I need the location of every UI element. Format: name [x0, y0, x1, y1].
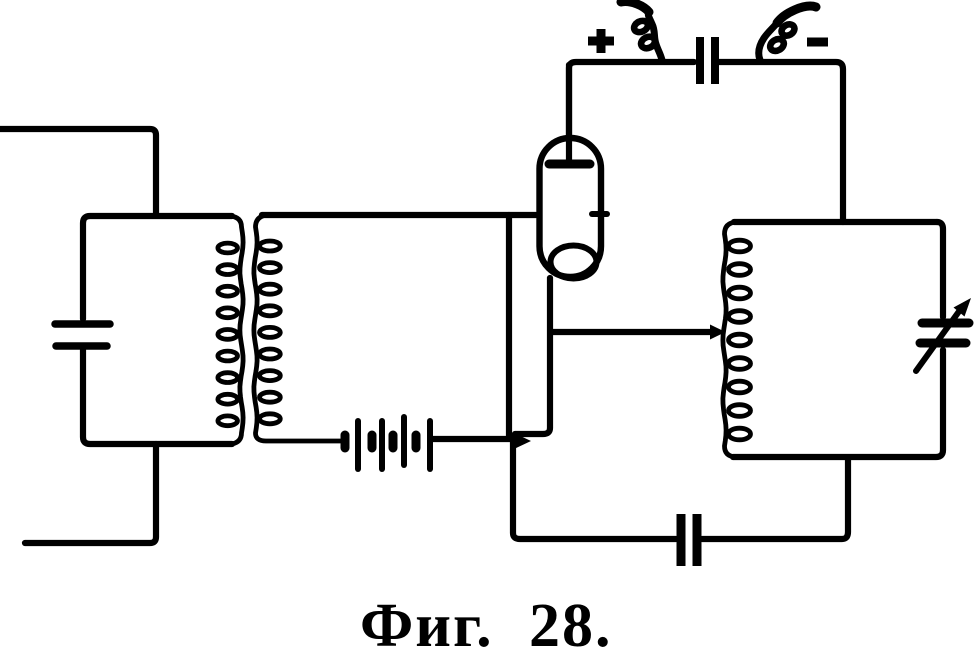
wire right tank top-right corner down: [937, 222, 943, 317]
tube grid stub: [592, 211, 607, 217]
wire battery to junction: [433, 436, 511, 442]
wire C3 to right tank bottom: [702, 458, 848, 539]
phone cord squiggle left: [648, 12, 662, 60]
wire grid-return vertical: [506, 215, 512, 437]
capacitor C3: [677, 514, 686, 566]
label plus: [588, 37, 614, 46]
wire grid from L2 top to tube: [262, 212, 536, 218]
wire ground-out bottom-left: [25, 444, 156, 543]
wire antenna-in top-left: [0, 129, 156, 213]
arrowhead into L3: [710, 325, 726, 340]
wire right tank right lower + bottom: [733, 350, 943, 457]
wire right tank top: [734, 219, 937, 225]
label minus: [807, 38, 828, 47]
wire tube cathode lead down: [515, 278, 550, 434]
battery B filament: [341, 435, 350, 448]
wire left tank top + left upper: [83, 216, 232, 319]
variable capacitor VC plates: [922, 319, 969, 328]
phone cord squiggle right: [759, 23, 777, 60]
vacuum tube V envelope: [540, 138, 602, 277]
wire C2 right down to tank top: [719, 62, 843, 222]
capacitor C2: [696, 37, 704, 84]
svg-text:28.: 28.: [529, 592, 613, 650]
junction J1 arrow blob: [514, 433, 531, 449]
inductor L2 secondary coil + wire to battery: [254, 215, 340, 441]
wire plate to C2 left: [569, 62, 694, 140]
capacitor C1: [55, 320, 110, 328]
variable capacitor arrow shaft: [916, 310, 960, 371]
inductor L3 tickler coil: [723, 222, 736, 457]
wire left tank left lower + bottom: [83, 350, 232, 444]
tube plate bar: [549, 160, 590, 169]
inductor L1 primary coil: [230, 216, 243, 444]
tube plate lead: [566, 65, 572, 160]
wire junction down to bottom rail: [513, 437, 676, 539]
wire plate output to L3 arrow: [552, 329, 712, 335]
tube base ellipse: [551, 246, 597, 279]
variable capacitor arrowhead: [954, 298, 972, 317]
svg-text:Фиг.: Фиг.: [360, 592, 494, 650]
